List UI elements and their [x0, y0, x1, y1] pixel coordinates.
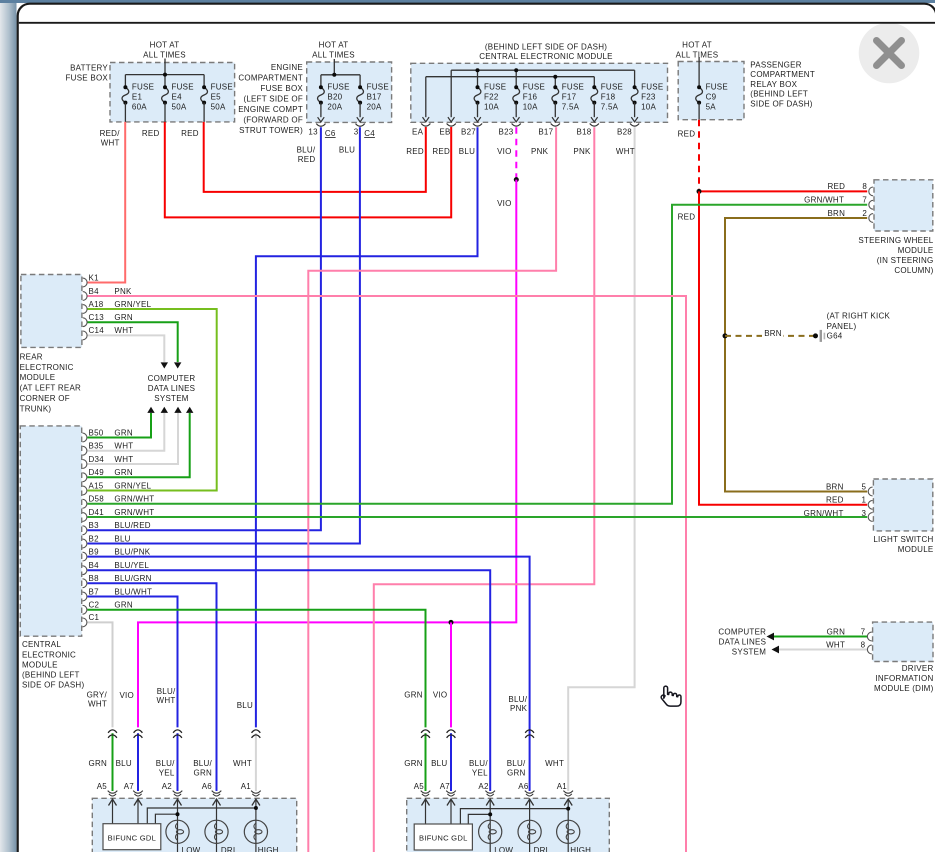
svg-text:B7: B7 [89, 587, 100, 596]
pin K1 [83, 278, 87, 287]
svg-text:A6: A6 [202, 782, 213, 791]
svg-text:B17: B17 [538, 127, 553, 136]
svg-text:PASSENGER: PASSENGER [750, 60, 801, 69]
svg-text:D41: D41 [89, 508, 105, 517]
wire: hot-at-all-times feed battery [164, 59, 166, 75]
svg-text:YEL: YEL [472, 769, 488, 778]
svg-text:ELECTRONIC: ELECTRONIC [22, 650, 76, 659]
pin B2 [83, 539, 87, 548]
svg-text:B18: B18 [577, 127, 592, 136]
svg-text:RED: RED [298, 155, 316, 164]
bifunc gdl module left [112, 799, 114, 824]
pin EA exit arrow [423, 117, 430, 122]
svg-text:C2: C2 [89, 601, 100, 610]
pin 1 light switch module [868, 500, 872, 509]
svg-text:(IN STEERING: (IN STEERING [877, 256, 934, 265]
pin D58 [83, 499, 87, 508]
wire WHT from pin B28 to right lamp pin A1 [568, 127, 634, 791]
wire GRN/WHT steering pin 7 to pin D58 [87, 205, 867, 504]
svg-text:20A: 20A [367, 103, 382, 112]
pin 8 steering wheel module [869, 187, 873, 196]
svg-text:CENTRAL ELECTRONIC MODULE: CENTRAL ELECTRONIC MODULE [479, 52, 613, 61]
svg-text:B20: B20 [327, 93, 342, 102]
inline connector right A6 [525, 730, 534, 733]
svg-text:50A: 50A [211, 103, 226, 112]
svg-text:GRN/YEL: GRN/YEL [114, 481, 151, 490]
lamp DRL right [518, 820, 541, 843]
pin A15 [83, 486, 87, 495]
pin B27 exit arrow [474, 117, 481, 122]
svg-text:BLU: BLU [459, 147, 475, 156]
svg-text:7.5A: 7.5A [601, 103, 619, 112]
pin B17 exit arrow [552, 117, 559, 122]
svg-text:WHT: WHT [114, 326, 133, 335]
inline connector left A1 [252, 730, 261, 733]
svg-text:(BEHIND LEFT: (BEHIND LEFT [750, 90, 808, 99]
left headlamp connector box [92, 798, 296, 852]
svg-text:B17: B17 [367, 93, 382, 102]
svg-text:(FORWARD OF: (FORWARD OF [243, 116, 303, 125]
pin D34 [83, 460, 87, 469]
wire BLU/YEL left lamp pin A2 below connector [177, 733, 179, 791]
wire GRN/YEL pin A18 to pin A15 [87, 309, 216, 491]
svg-text:FUSE BOX: FUSE BOX [261, 84, 304, 93]
svg-text:A15: A15 [89, 481, 104, 490]
svg-text:COMPUTER: COMPUTER [148, 374, 196, 383]
right lamp connector entry [563, 791, 573, 794]
pin D41 [83, 513, 87, 522]
wire WHT left lamp pin A1 below connector [255, 733, 257, 791]
svg-text:RED/: RED/ [100, 129, 121, 138]
wire BLU left lamp pin A7 below connector [137, 733, 139, 791]
svg-text:B50: B50 [89, 428, 104, 437]
inline connector left A5 [108, 730, 117, 733]
svg-text:A6: A6 [518, 782, 529, 791]
svg-text:FUSE: FUSE [172, 83, 194, 92]
svg-text:WHT: WHT [157, 696, 176, 705]
svg-text:VIO: VIO [119, 691, 134, 700]
svg-text:A1: A1 [557, 782, 568, 791]
wire: C9 lead to box bottom [698, 103, 700, 120]
wire PNK from pin B18 [374, 127, 595, 852]
svg-text:HIGH: HIGH [570, 846, 591, 852]
svg-text:DATA LINES: DATA LINES [719, 637, 767, 646]
wire WHT pin C14 to data lines [87, 335, 164, 362]
pin 2 steering wheel module [869, 214, 873, 223]
wire PNK from rear module pin B4 [87, 296, 686, 852]
wire: hot-at-all-times feed engine box [333, 59, 335, 75]
rear electronic module box [21, 275, 82, 348]
svg-text:WHT: WHT [233, 759, 252, 768]
wire RED from fuse E5 to pin EA [204, 122, 426, 192]
light switch module box [873, 479, 932, 531]
svg-text:FUSE: FUSE [484, 83, 506, 92]
svg-text:FUSE: FUSE [641, 83, 663, 92]
svg-text:WHT: WHT [826, 640, 845, 649]
pin C13 [83, 318, 87, 327]
pin 3 C4 exit arrow [357, 117, 364, 122]
close button [859, 23, 920, 84]
fuse E1 60A [122, 87, 129, 102]
svg-text:COMPARTMENT: COMPARTMENT [750, 70, 815, 79]
pin D49 [83, 473, 87, 482]
wire GRN right lamp pin A5 below connector [425, 733, 427, 791]
svg-text:MODULE (DIM): MODULE (DIM) [874, 684, 934, 693]
wire: fuse exit leads engine box [320, 103, 322, 118]
passenger compartment relay box [678, 62, 744, 120]
pin B18 exit arrow [591, 117, 598, 122]
svg-text:A7: A7 [124, 782, 135, 791]
label BRN ground wire [762, 329, 783, 338]
svg-text:C6: C6 [325, 129, 336, 138]
svg-text:RED: RED [142, 129, 160, 138]
node battery bus [125, 74, 204, 76]
svg-text:RELAY BOX: RELAY BOX [750, 80, 797, 89]
pin 3 light switch module [868, 513, 872, 522]
wire WHT pin D34 to data lines [87, 413, 178, 464]
svg-text:BLU: BLU [116, 759, 132, 768]
right lamp connector entry [421, 791, 431, 794]
wire BLU right lamp pin A7 below connector [450, 733, 452, 791]
svg-text:A2: A2 [162, 782, 173, 791]
pin B7 [83, 592, 87, 601]
pin 7 DIM [867, 632, 871, 641]
svg-text:BRN: BRN [764, 329, 782, 338]
fuse F16 10A [513, 87, 520, 102]
svg-text:3: 3 [354, 127, 359, 136]
lamp LOW left [166, 820, 189, 843]
svg-text:10A: 10A [484, 103, 499, 112]
wire BRN steering pin 2 to light switch pin 5 [725, 218, 867, 492]
lamp DRL left [205, 820, 228, 843]
wire RED dashed from fuse C9 [698, 120, 700, 192]
wire BLU/RED from pin 13 C6 to pin B3 [87, 127, 321, 530]
svg-text:10A: 10A [523, 103, 538, 112]
svg-text:13: 13 [308, 127, 318, 136]
fuse C9 5A [696, 87, 703, 102]
svg-text:VIO: VIO [497, 199, 512, 208]
node RED junction [697, 189, 702, 194]
svg-text:F22: F22 [484, 93, 499, 102]
inline connector right A7 [447, 730, 456, 733]
svg-text:RED: RED [406, 147, 424, 156]
svg-text:SIDE OF DASH): SIDE OF DASH) [750, 100, 812, 109]
pin B23 exit arrow [513, 117, 520, 122]
svg-text:VIO: VIO [497, 147, 512, 156]
svg-text:MODULE: MODULE [22, 660, 58, 669]
cursor hand pointer [661, 686, 681, 706]
node BRN ground branch [723, 333, 728, 338]
fuse F22 10A [474, 87, 481, 102]
svg-text:20A: 20A [327, 103, 342, 112]
central electronic module box (lower left) [20, 426, 81, 636]
svg-text:DRL: DRL [534, 846, 551, 852]
wire: fuse leads to box bottom [124, 103, 126, 122]
svg-text:FUSE: FUSE [601, 83, 623, 92]
svg-text:BLU/WHT: BLU/WHT [114, 587, 152, 596]
svg-text:E5: E5 [211, 93, 222, 102]
wire VIO branch to right lamp pin A7 [450, 622, 452, 727]
svg-text:HOT AT: HOT AT [150, 41, 180, 50]
svg-text:C4: C4 [364, 129, 375, 138]
engine compartment fuse box [307, 62, 392, 122]
svg-text:WHT: WHT [616, 147, 635, 156]
svg-text:(BEHIND LEFT: (BEHIND LEFT [22, 671, 80, 680]
svg-text:60A: 60A [132, 103, 147, 112]
svg-text:F23: F23 [641, 93, 656, 102]
window top strip [0, 0, 935, 3]
svg-text:RED: RED [827, 182, 845, 191]
wire: EA/EB drops [425, 77, 427, 118]
lamp HIGH left [244, 820, 267, 843]
svg-text:LIGHT SWITCH: LIGHT SWITCH [873, 535, 933, 544]
svg-text:BLU/: BLU/ [508, 695, 527, 704]
fuse F18 7.5A [591, 87, 598, 102]
svg-text:B27: B27 [461, 127, 476, 136]
svg-text:FUSE: FUSE [327, 83, 349, 92]
svg-text:TRUNK): TRUNK) [20, 405, 52, 414]
svg-text:LOW: LOW [494, 846, 513, 852]
wire WHT DIM pin 8 to data lines [777, 649, 867, 651]
svg-text:5: 5 [861, 482, 866, 491]
lamp HIGH right [557, 820, 580, 843]
svg-text:F17: F17 [562, 93, 577, 102]
pin B35 [83, 446, 87, 455]
svg-text:BLU: BLU [237, 701, 253, 710]
pin 7 steering wheel module [869, 200, 873, 209]
fuse E5 50A [201, 87, 208, 102]
wire GRN/WHT pin D41 to light switch pin 3 [87, 516, 867, 518]
svg-text:CENTRAL: CENTRAL [22, 640, 61, 649]
svg-text:FUSE: FUSE [367, 83, 389, 92]
wire GRN left lamp pin A5 below connector [112, 733, 114, 791]
svg-text:B8: B8 [89, 574, 100, 583]
svg-text:F18: F18 [601, 93, 616, 102]
pin C14 [83, 331, 87, 340]
svg-text:BIFUNC GDL: BIFUNC GDL [419, 834, 468, 843]
node VIO junction [514, 177, 519, 182]
pin 5 light switch module [868, 487, 872, 496]
svg-text:ALL TIMES: ALL TIMES [312, 51, 355, 60]
svg-text:BRN: BRN [827, 209, 845, 218]
svg-text:ENGINE: ENGINE [271, 63, 303, 72]
svg-text:GRN/WHT: GRN/WHT [114, 508, 154, 517]
svg-text:C1: C1 [89, 613, 100, 622]
wire RED/WHT from fuse E1 to pin K1 [87, 122, 125, 283]
pin B4 [83, 292, 87, 301]
svg-text:7.5A: 7.5A [562, 103, 580, 112]
inline connector left A7 [134, 730, 143, 733]
central electronic module (top fuse box) [411, 63, 668, 122]
wire GRY/WHT pin C1 to left lamp pin A5 [87, 622, 112, 727]
svg-text:B4: B4 [89, 561, 100, 570]
svg-text:A1: A1 [241, 782, 252, 791]
pin B9 [83, 552, 87, 561]
pin C1 [83, 618, 87, 627]
pin EB exit arrow [448, 117, 455, 122]
svg-text:HOT AT: HOT AT [319, 41, 349, 50]
svg-text:EA: EA [412, 127, 424, 136]
svg-text:YEL: YEL [159, 769, 175, 778]
wire RED from fuse E4 to pin EB [165, 122, 451, 217]
svg-text:BLU: BLU [431, 759, 447, 768]
svg-text:MODULE: MODULE [20, 373, 56, 382]
svg-text:FUSE: FUSE [706, 83, 728, 92]
svg-text:C14: C14 [89, 326, 105, 335]
wire GRN pin B50 to data lines [87, 413, 151, 438]
svg-text:COMPUTER: COMPUTER [718, 627, 766, 636]
fuse E4 50A [162, 87, 169, 102]
svg-text:BLU: BLU [339, 146, 355, 155]
svg-text:PNK: PNK [114, 287, 132, 296]
svg-text:REAR: REAR [20, 352, 43, 361]
svg-text:PNK: PNK [531, 147, 549, 156]
svg-text:D49: D49 [89, 468, 105, 477]
wire BLU/WHT pin B7 to left lamp pin A2 [87, 597, 177, 728]
svg-text:RED: RED [678, 213, 696, 222]
svg-text:INFORMATION: INFORMATION [875, 674, 933, 683]
svg-text:GRY/: GRY/ [87, 690, 108, 699]
svg-text:A5: A5 [414, 782, 425, 791]
node VIO branch junction [449, 620, 454, 625]
pin 13 C6 exit arrow [318, 117, 325, 122]
svg-text:A2: A2 [478, 782, 489, 791]
node computer data lines arrows down [161, 362, 168, 368]
node CEM bus 1 (EB) [451, 69, 634, 71]
svg-text:PANEL): PANEL) [827, 322, 857, 331]
svg-text:ELECTRONIC: ELECTRONIC [20, 363, 74, 372]
svg-text:E1: E1 [132, 93, 143, 102]
wire BRN dashed to ground G64 [725, 335, 816, 337]
pin B3 [83, 526, 87, 535]
svg-text:BLU/YEL: BLU/YEL [114, 561, 149, 570]
svg-text:RED: RED [678, 129, 696, 138]
right lamp connector entry [446, 791, 456, 794]
svg-text:VIO: VIO [433, 690, 448, 699]
svg-text:C13: C13 [89, 313, 105, 322]
wire: hot-at-all-times feed C9 [698, 57, 700, 87]
svg-text:PNK: PNK [573, 147, 591, 156]
svg-text:50A: 50A [172, 103, 187, 112]
wire GRN DIM pin 7 to data lines [772, 636, 867, 638]
svg-text:BLU/PNK: BLU/PNK [114, 547, 150, 556]
inline connector left A2 [173, 730, 182, 733]
svg-text:F16: F16 [523, 93, 538, 102]
svg-text:DRL: DRL [221, 846, 238, 852]
svg-text:FUSE BOX: FUSE BOX [66, 74, 109, 83]
svg-text:(LEFT SIDE OF: (LEFT SIDE OF [243, 94, 303, 103]
svg-text:B3: B3 [89, 521, 100, 530]
svg-text:(AT RIGHT KICK: (AT RIGHT KICK [827, 311, 891, 320]
svg-text:D34: D34 [89, 455, 105, 464]
steering wheel module box [874, 180, 933, 231]
svg-text:WHT: WHT [114, 455, 133, 464]
window header line [19, 22, 935, 24]
svg-text:WHT: WHT [545, 759, 564, 768]
svg-text:BLU/: BLU/ [193, 759, 212, 768]
node engine bus [321, 74, 360, 76]
wire GRN pin C13 to data lines [87, 322, 177, 362]
svg-text:GRN: GRN [507, 769, 526, 778]
wire: CEM fuse exit leads [477, 103, 479, 118]
svg-text:GRN/YEL: GRN/YEL [114, 300, 151, 309]
svg-text:GRN: GRN [827, 627, 846, 636]
right lamp connector entry [485, 791, 495, 794]
svg-text:3: 3 [861, 509, 866, 518]
svg-text:SYSTEM: SYSTEM [154, 394, 188, 403]
wire BLU from pin 3 C4 to pin B2 [87, 127, 360, 543]
svg-text:DRIVER: DRIVER [902, 664, 934, 673]
svg-text:FUSE: FUSE [211, 83, 233, 92]
svg-text:GRN: GRN [114, 428, 133, 437]
svg-text:HIGH: HIGH [258, 846, 279, 852]
svg-text:CORNER OF: CORNER OF [20, 394, 70, 403]
svg-text:BIFUNC GDL: BIFUNC GDL [108, 833, 157, 842]
fuse F17 7.5A [552, 87, 559, 102]
svg-text:STEERING WHEEL: STEERING WHEEL [858, 236, 933, 245]
svg-text:BLU/GRN: BLU/GRN [114, 574, 151, 583]
svg-text:GRN: GRN [114, 468, 133, 477]
svg-text:FUSE: FUSE [562, 83, 584, 92]
svg-text:FUSE: FUSE [523, 83, 545, 92]
svg-text:7: 7 [861, 627, 866, 636]
svg-text:ALL TIMES: ALL TIMES [143, 51, 186, 60]
svg-text:BLU/: BLU/ [157, 687, 176, 696]
lamp LOW right [479, 820, 502, 843]
svg-text:GRN: GRN [88, 759, 107, 768]
wire BLU from pin B27 to left lamp pin A1 [256, 127, 478, 727]
svg-text:C9: C9 [706, 93, 717, 102]
svg-text:K1: K1 [89, 273, 100, 282]
wire BLU/PNK pin B9 to right lamp pin A6 [87, 557, 529, 791]
svg-text:RED: RED [181, 129, 199, 138]
fuse B20 20A [318, 87, 325, 102]
wire VIO main run to left lamp pin A7 [138, 180, 516, 728]
right headlamp connector box [407, 798, 610, 852]
svg-text:DATA LINES: DATA LINES [148, 384, 196, 393]
svg-text:B28: B28 [617, 127, 632, 136]
wire VIO from pin B23 (dashed section) [515, 127, 517, 179]
svg-text:GRN/WHT: GRN/WHT [114, 495, 154, 504]
svg-text:MODULE: MODULE [898, 246, 934, 255]
svg-text:7: 7 [862, 196, 867, 205]
svg-text:BLU: BLU [114, 534, 130, 543]
svg-text:SIDE OF DASH): SIDE OF DASH) [22, 681, 84, 690]
pin B28 exit arrow [631, 117, 638, 122]
inline connector right A5 [421, 730, 430, 733]
pin 8 DIM [867, 645, 871, 654]
svg-text:SYSTEM: SYSTEM [732, 647, 766, 656]
svg-text:RED: RED [826, 496, 844, 505]
pin B50 [83, 433, 87, 442]
svg-text:WHT: WHT [101, 139, 120, 148]
svg-text:G64: G64 [827, 332, 843, 341]
svg-text:GRN: GRN [114, 601, 133, 610]
svg-text:STRUT TOWER): STRUT TOWER) [239, 126, 303, 135]
left lamp connector entry [212, 791, 222, 794]
wire BLU/GRN pin B8 to left lamp pin A6 [87, 583, 216, 791]
svg-text:D58: D58 [89, 495, 105, 504]
svg-text:B9: B9 [89, 547, 100, 556]
svg-text:RED: RED [432, 147, 450, 156]
left lamp connector entry [133, 791, 143, 794]
svg-text:10A: 10A [641, 103, 656, 112]
svg-text:GRN: GRN [114, 313, 133, 322]
wire PNK from pin B17 [308, 127, 556, 852]
svg-text:PNK: PNK [510, 704, 528, 713]
svg-text:2: 2 [862, 209, 867, 218]
left lamp connector entry [251, 791, 261, 794]
